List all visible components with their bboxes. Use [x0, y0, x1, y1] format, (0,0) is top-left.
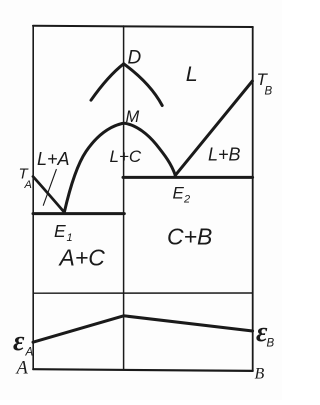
- svg-text:ε: ε: [13, 326, 25, 357]
- svg-text:B: B: [265, 86, 273, 98]
- svg-text:B: B: [267, 338, 275, 350]
- svg-text:C+B: C+B: [167, 224, 212, 250]
- leader line from L+A label: [43, 170, 56, 206]
- frame top border: [33, 26, 253, 27]
- eutectic line E2: [123, 176, 253, 179]
- svg-text:2: 2: [183, 194, 190, 206]
- left arc of D peak: [91, 64, 124, 100]
- svg-text:M: M: [126, 108, 140, 126]
- frame left border: [32, 26, 34, 370]
- svg-text:E: E: [173, 183, 185, 202]
- svg-text:L+B: L+B: [208, 145, 241, 165]
- svg-text:1: 1: [67, 232, 73, 244]
- eutectic line E1: [33, 212, 124, 215]
- svg-text:D: D: [128, 48, 142, 69]
- svg-text:A: A: [15, 359, 29, 379]
- divider line between phase diagram and emf plot: [33, 292, 253, 294]
- svg-text:A: A: [25, 347, 34, 359]
- svg-text:B: B: [255, 366, 265, 383]
- emf curve: [33, 316, 253, 342]
- svg-text:A+C: A+C: [58, 245, 106, 271]
- right arc of D peak: [124, 64, 163, 106]
- frame bottom border: [33, 369, 253, 371]
- liquidus curve from T_A to E1: [33, 177, 64, 213]
- svg-text:A: A: [24, 179, 32, 191]
- svg-text:E: E: [54, 221, 66, 241]
- liquidus dome of compound C through maximum M: [64, 123, 175, 212]
- frame right border: [252, 27, 254, 371]
- svg-text:L+C: L+C: [110, 147, 142, 166]
- vertical composition line of compound C: [123, 26, 125, 370]
- liquidus line from E2 to T_B: [175, 81, 252, 175]
- svg-text:L: L: [186, 62, 198, 86]
- svg-text:L+A: L+A: [37, 149, 70, 169]
